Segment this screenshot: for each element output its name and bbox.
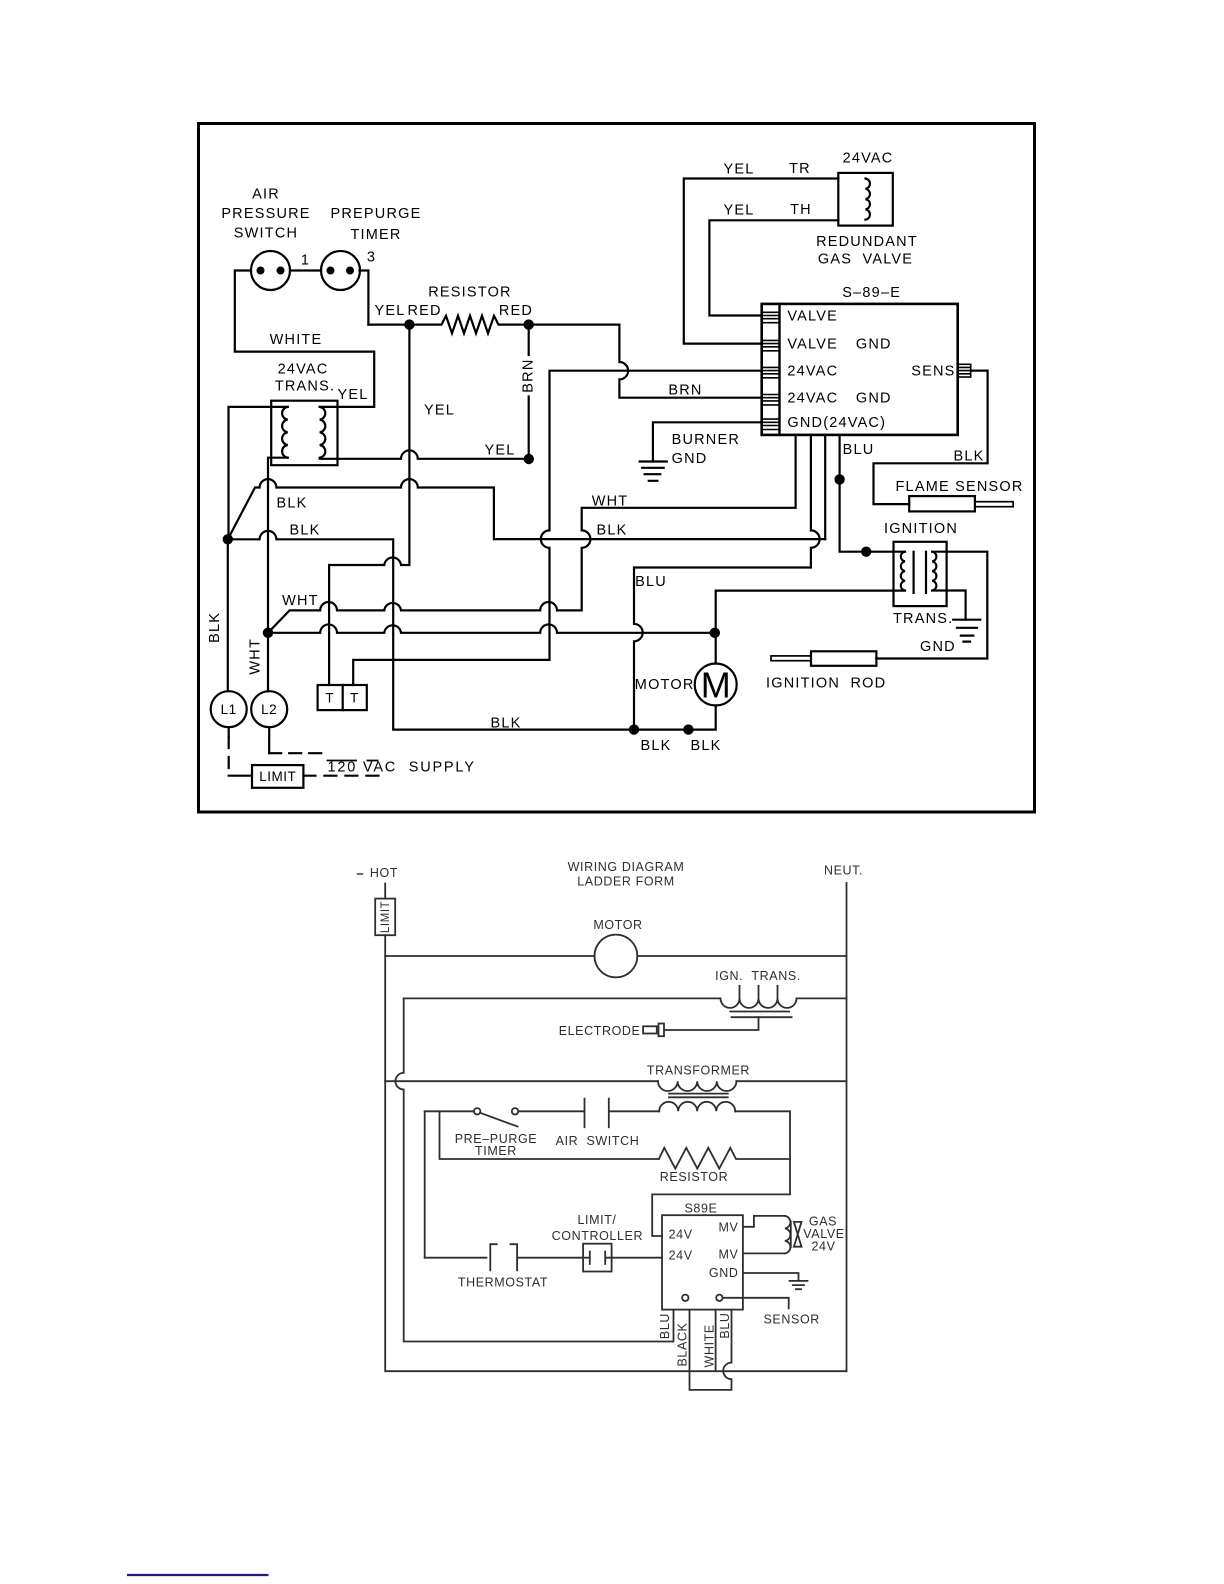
svg-text:24VAC: 24VAC: [787, 364, 838, 380]
svg-text:YEL: YEL: [723, 203, 754, 219]
label 24VAC TRANS.: [275, 362, 335, 395]
svg-text:LADDER FORM: LADDER FORM: [577, 875, 675, 889]
label WHT rotated: [248, 638, 264, 675]
svg-text:T: T: [350, 691, 359, 706]
label LIMIT/CONTROLLER: [552, 1213, 643, 1243]
svg-text:BLK: BLK: [640, 738, 671, 754]
prepurge timer switch S2: [321, 251, 360, 290]
label YEL mid vertical: [424, 403, 455, 419]
svg-text:BLU: BLU: [718, 1312, 732, 1338]
ignition rod body: [771, 651, 876, 666]
svg-text:MV: MV: [719, 1248, 739, 1262]
svg-text:VALVE: VALVE: [787, 309, 838, 325]
svg-text:IGNITION: IGNITION: [884, 521, 958, 537]
svg-text:GND: GND: [709, 1266, 739, 1280]
svg-text:NEUT.: NEUT.: [824, 864, 863, 878]
svg-text:1: 1: [301, 253, 310, 269]
transformer primary coil ladder: [658, 1081, 736, 1091]
label 120 VAC SUPPLY: [328, 760, 476, 776]
label BLK at flame sensor: [953, 449, 984, 465]
wire BLACK/BLU U loop below S89E: [690, 1310, 732, 1390]
sub-rail 1: ign-trans row down to BLU pin of S89E: [395, 998, 673, 1341]
svg-text:WHITE: WHITE: [270, 332, 323, 348]
LIMIT box ladder: [375, 899, 395, 936]
label BLK row2: [289, 523, 320, 539]
label LIMIT rotated ladder: [380, 901, 392, 933]
svg-text:REDUNDANT: REDUNDANT: [816, 234, 918, 250]
svg-text:RESISTOR: RESISTOR: [660, 1170, 728, 1184]
svg-text:PREPURGE: PREPURGE: [331, 206, 422, 222]
svg-text:YEL: YEL: [424, 403, 455, 419]
ignition transformer left coil: [901, 552, 905, 591]
wire WHT: S-89-E bottom pin 1 to left circuit: [582, 435, 796, 611]
svg-text:24V: 24V: [669, 1228, 693, 1242]
ignition transformer right coil: [932, 552, 936, 591]
label ELECTRODE: [559, 1024, 641, 1038]
svg-text:TIMER: TIMER: [475, 1144, 517, 1158]
wire WHITE pin to neutral run: [715, 1310, 717, 1371]
LIMIT box: [252, 765, 303, 788]
svg-text:24V: 24V: [669, 1249, 693, 1263]
label PREPURGE TIMER: [331, 206, 422, 243]
svg-text:BLK: BLK: [690, 738, 721, 754]
svg-text:TR: TR: [789, 161, 811, 177]
lamp L1: [211, 691, 247, 727]
ignition transformer T2 box: [894, 542, 947, 606]
ignition transformer core bars: [914, 552, 926, 593]
svg-text:HOT: HOT: [370, 866, 398, 880]
label MOTOR ladder: [593, 918, 642, 932]
label FLAME SENSOR: [896, 479, 1024, 495]
label YEL at transformer: [337, 387, 368, 403]
svg-text:MOTOR: MOTOR: [635, 677, 695, 693]
thermostat contact: [425, 1244, 583, 1270]
svg-text:GND: GND: [672, 451, 708, 467]
wire transformer primary bottom down to node WHT (dot5) and lamp L2: [268, 458, 288, 692]
label AIR PRESSURE SWITCH: [221, 187, 310, 242]
svg-text:24VAC: 24VAC: [843, 151, 894, 167]
label BLK row1: [276, 496, 307, 512]
wire BRN vertical dot2 to dot3 (gap for label): [528, 325, 530, 459]
resistor zigzag ladder: [659, 1148, 790, 1169]
svg-text:BLK: BLK: [207, 612, 223, 643]
svg-text:YEL: YEL: [484, 443, 515, 459]
svg-text:L1: L1: [221, 702, 237, 717]
wire between switches: [290, 269, 321, 271]
junction dot2: [524, 319, 534, 329]
transformer secondary coil ladder: [659, 1102, 735, 1112]
label BLK bottom run: [490, 716, 521, 732]
rung 1 motor: [385, 955, 846, 957]
blue footnote rule: [127, 1574, 269, 1576]
wire BLK: S-89-E bottom pin 3 down joining BLK run: [824, 435, 826, 539]
svg-text:WIRING DIAGRAM: WIRING DIAGRAM: [568, 860, 685, 874]
S-89-E pin labels: [787, 309, 955, 432]
svg-text:LIMIT: LIMIT: [259, 769, 296, 784]
junction dot4: [223, 534, 233, 544]
wire transformer primary top to node BLK (dot4): [229, 407, 288, 539]
HOT rail and bottom neutral run: [385, 935, 846, 1371]
S-89-E SENS pin stub: [958, 364, 971, 377]
svg-text:SENS: SENS: [911, 364, 955, 380]
wire BURNER GND from GND(24VAC) pin: [653, 422, 762, 461]
svg-text:LIMIT/: LIMIT/: [577, 1213, 616, 1227]
junction dot1: [404, 319, 414, 329]
label RESISTOR: [428, 285, 511, 301]
svg-text:ELECTRODE: ELECTRODE: [559, 1024, 641, 1038]
rung 2 ignition transformer: [404, 997, 847, 999]
label YEL at dot3: [484, 443, 515, 459]
wire switch S1 left to 24VAC TRANS secondary top (WHITE): [235, 271, 374, 407]
svg-text:BLU: BLU: [658, 1313, 672, 1339]
svg-text:24V: 24V: [811, 1240, 835, 1254]
wire ignition secondary top to ignition rod: [876, 552, 987, 659]
svg-text:M: M: [701, 665, 731, 706]
wire switch S2 right down to node YEL/RED: [360, 271, 369, 325]
svg-text:BRN: BRN: [521, 358, 537, 392]
wire BLU: S-89-E bottom pin 4 down to ignition transformer: [840, 435, 905, 552]
burner ground symbol: [640, 462, 667, 481]
junction dot B ignition transformer input: [861, 547, 871, 557]
label IGN. TRANS.: [715, 969, 801, 983]
ignition ground symbol: [953, 620, 980, 642]
label THERMOSTAT: [458, 1276, 548, 1290]
gas valve coil ladder: [785, 1216, 791, 1254]
wire sensor stub: [723, 1298, 789, 1309]
svg-text:VALVE: VALVE: [787, 337, 838, 353]
wire BLK left rail: dot4 down to lamp L1: [227, 539, 229, 691]
label BRN rotated on vertical: [521, 358, 537, 392]
label BLK under dot D: [690, 738, 721, 754]
wire YEL: dot1 down to T terminal 1: [329, 325, 409, 685]
svg-text:GND: GND: [856, 337, 892, 353]
label NEUT.: [824, 864, 863, 878]
label GAS VALVE 24V: [803, 1215, 844, 1254]
label AIR SWITCH: [556, 1134, 640, 1148]
outer border box: [199, 124, 1035, 813]
svg-text:CONTROLLER: CONTROLLER: [552, 1229, 643, 1243]
S-89-E control box U1: [762, 304, 958, 435]
NEUT rail: [846, 883, 848, 1371]
24VAC transformer primary coil: [282, 407, 288, 458]
label LIMIT: [259, 769, 296, 784]
ign. trans. coil ladder: [721, 986, 797, 1008]
svg-text:S–89–E: S–89–E: [842, 285, 901, 301]
resistor rung drop: [440, 1111, 659, 1159]
label BLK right: [596, 523, 627, 539]
svg-text:24VAC: 24VAC: [787, 391, 838, 407]
svg-text:TH: TH: [790, 202, 812, 218]
label BLU rotated 1: [658, 1313, 672, 1339]
wire WHT upper: dot5 diagonal up, right with hops, up to WHT run: [268, 602, 580, 633]
label MOTOR: [635, 677, 695, 693]
label 24VAC gas valve: [843, 151, 894, 167]
label BURNER GND: [672, 432, 740, 467]
label BLU rotated 2: [718, 1312, 732, 1338]
label BLU left: [635, 574, 667, 590]
svg-text:BLU: BLU: [635, 574, 667, 590]
wire BLK diagonal dot4 up to BLK1 run, right, down, BLK run to S-89-E pin3: [228, 479, 825, 539]
label L1: [221, 702, 237, 717]
label WHITE rotated: [703, 1324, 717, 1367]
HOT stub: [358, 874, 386, 899]
label WHT upper left: [282, 593, 319, 609]
wire WHT lower: dot5 right with hops to motor top junction: [268, 624, 715, 632]
svg-text:BLK: BLK: [289, 523, 320, 539]
transformer core lines ladder: [669, 1094, 728, 1098]
wire BLU: S-89-E bottom pin 2 down to motor circuit (hops BLK): [634, 435, 820, 730]
label REDUNDANT GAS VALVE: [816, 234, 918, 268]
LIMIT box right dashed lead: [303, 775, 387, 777]
120 VAC overbars: [328, 760, 378, 762]
label WIRING DIAGRAM LADDER FORM: [568, 860, 685, 889]
label WHT right: [592, 494, 629, 510]
junction dot D on bottom BLK run: [683, 724, 693, 734]
wire 24VAC: T terminal 2 up to S-89-E 24VAC pin: [353, 371, 762, 685]
svg-text:THERMOSTAT: THERMOSTAT: [458, 1276, 548, 1290]
label contact 1: [301, 253, 310, 269]
resistor R1 with leads: node dot1 to dot2: [368, 316, 528, 334]
svg-text:BRN: BRN: [668, 383, 702, 399]
label YEL TH: [723, 202, 811, 219]
wire GND pin to ground: [743, 1273, 799, 1281]
svg-text:BLU: BLU: [843, 442, 875, 458]
flame sensor FS1 body: [909, 496, 1013, 511]
wire transformer secondary bottom YEL to node dot3 with hop: [320, 450, 529, 458]
wire RED/BRN: dot2 right, down with hop, to S-89-E 24VAC GND pin: [529, 325, 762, 398]
svg-text:BLK: BLK: [953, 449, 984, 465]
svg-text:SWITCH: SWITCH: [234, 225, 298, 241]
air pressure switch S1: [251, 251, 290, 290]
T-T terminal block: [318, 685, 367, 710]
label BRN horizontal: [668, 383, 702, 399]
label IGNITION ROD: [766, 676, 886, 692]
svg-text:RESISTOR: RESISTOR: [428, 285, 511, 301]
wire YEL TH: gas valve to S-89-E VALVE pin: [709, 220, 838, 315]
label RESISTOR ladder: [660, 1170, 728, 1184]
24VAC transformer secondary coil: [320, 407, 326, 458]
svg-text:RED: RED: [408, 303, 442, 319]
svg-text:MV: MV: [719, 1221, 739, 1235]
label T T: [325, 691, 359, 706]
S-89-E left pin terminal hatches: [762, 312, 780, 429]
wire L2 drop and dashed 120VAC lead: [269, 727, 323, 753]
svg-text:WHT: WHT: [248, 638, 264, 675]
label BLK rotated left rail: [207, 612, 223, 643]
gas valve coil: [866, 179, 870, 220]
gas valve bowtie symbol: [794, 1222, 802, 1247]
wire ignition secondary bottom to ground: [932, 591, 965, 620]
svg-text:WHITE: WHITE: [703, 1324, 717, 1367]
label contact 3: [367, 250, 376, 266]
svg-text:MOTOR: MOTOR: [593, 918, 642, 932]
svg-text:GND(24VAC): GND(24VAC): [787, 415, 886, 431]
wire MV1 to gas valve coil: [743, 1216, 785, 1227]
svg-text:S89E: S89E: [685, 1202, 718, 1216]
label BLK under dot C: [640, 738, 671, 754]
svg-text:WHT: WHT: [282, 593, 319, 609]
junction dot5: [263, 628, 273, 638]
svg-text:GND: GND: [920, 639, 956, 655]
label WHITE: [270, 332, 323, 348]
svg-text:AIR: AIR: [252, 187, 280, 203]
label PRE-PURGE TIMER: [455, 1132, 538, 1158]
label BLACK rotated: [675, 1322, 689, 1366]
svg-text:24VAC: 24VAC: [278, 362, 329, 378]
svg-text:RED: RED: [499, 303, 533, 319]
air switch bars: [585, 1099, 660, 1128]
svg-text:YEL: YEL: [337, 387, 368, 403]
svg-text:3: 3: [367, 250, 376, 266]
svg-text:BLK: BLK: [276, 496, 307, 512]
svg-text:GND: GND: [856, 391, 892, 407]
S89E bottom contact circles: [682, 1295, 723, 1301]
wire YEL TR: gas valve to S-89-E VALVE GND pin: [684, 179, 839, 344]
svg-text:AIR SWITCH: AIR SWITCH: [556, 1134, 640, 1148]
label YEL TR: [723, 161, 810, 178]
svg-text:BLACK: BLACK: [675, 1322, 689, 1366]
wire L1 dashed drop to LIMIT: [229, 727, 252, 775]
rung 3 transformer primary: [385, 1080, 846, 1082]
wire secondary right lead down-left to S89E 24V pin1: [652, 1111, 790, 1236]
junction dot C on bottom BLK run: [629, 724, 639, 734]
svg-text:YEL: YEL: [374, 303, 405, 319]
svg-text:IGNITION ROD: IGNITION ROD: [766, 676, 886, 692]
svg-text:BLK: BLK: [596, 523, 627, 539]
pre-purge timer contact: [425, 1108, 585, 1126]
label IGNITION TRANS. GND: [884, 521, 958, 655]
label S-89-E: [842, 285, 901, 301]
electrode symbol: [643, 1024, 664, 1037]
S89E pin labels ladder: [669, 1221, 739, 1281]
S89E box ladder: [662, 1215, 743, 1309]
motor top lead and junction dot E: [710, 591, 905, 664]
wire BLK-A: dot4 right with hop, down, bottom BLK run to motor: [228, 531, 716, 730]
svg-text:TRANSFORMER: TRANSFORMER: [647, 1064, 750, 1078]
svg-text:TRANS.: TRANS.: [893, 611, 953, 627]
wire BLK: S-89-E SENS pin to flame sensor: [874, 371, 988, 505]
wire electrode to ign. trans. core: [664, 1017, 759, 1030]
motor M1 circle: [695, 664, 737, 706]
svg-text:L2: L2: [261, 702, 277, 717]
svg-text:LIMIT: LIMIT: [380, 901, 392, 933]
wire gas valve coil to MV2: [743, 1252, 785, 1254]
label TRANSFORMER: [647, 1064, 750, 1078]
junction dot A on BLU pin 4 wire: [834, 474, 844, 484]
svg-text:BLK: BLK: [490, 716, 521, 732]
label SENSOR: [764, 1313, 820, 1327]
limit/controller box: [583, 1244, 612, 1272]
svg-text:BURNER: BURNER: [672, 432, 740, 448]
svg-text:FLAME SENSOR: FLAME SENSOR: [896, 479, 1024, 495]
motor M letter: [701, 665, 731, 706]
sub-rail 2: pre-purge row to thermostat row: [424, 1111, 426, 1257]
24VAC transformer T1 box: [271, 401, 337, 466]
label BLU at S-89-E bottom: [843, 442, 875, 458]
svg-text:WHT: WHT: [592, 494, 629, 510]
svg-text:GAS VALVE: GAS VALVE: [818, 252, 913, 268]
svg-text:TRANS.: TRANS.: [275, 379, 335, 395]
ladder ground symbol: [790, 1281, 808, 1289]
svg-text:SENSOR: SENSOR: [764, 1313, 820, 1327]
gas valve box: [838, 173, 893, 226]
svg-text:T: T: [325, 691, 334, 706]
label RED right of resistor: [499, 303, 533, 319]
svg-text:TIMER: TIMER: [350, 227, 401, 243]
svg-text:PRESSURE: PRESSURE: [221, 206, 310, 222]
junction dot3: [524, 454, 534, 464]
svg-text:IGN. TRANS.: IGN. TRANS.: [715, 969, 801, 983]
label L2: [261, 702, 277, 717]
ign. trans. core lines ladder: [730, 1012, 791, 1018]
svg-text:120 VAC SUPPLY: 120 VAC SUPPLY: [328, 760, 476, 776]
lamp L2: [251, 691, 287, 727]
label S89E: [685, 1202, 718, 1216]
motor circle ladder: [595, 935, 638, 978]
wire controller to S89E 24V pin2: [612, 1257, 662, 1259]
svg-text:YEL: YEL: [723, 162, 754, 178]
label HOT: [370, 866, 398, 880]
label YEL RED left of dot1: [374, 303, 441, 319]
